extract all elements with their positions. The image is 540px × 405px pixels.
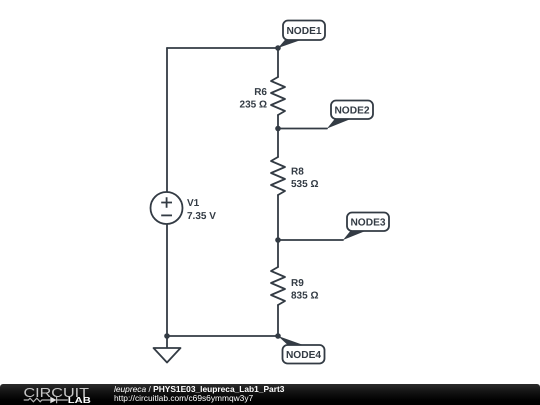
wire NODE3 stub horizontal (278, 239, 343, 241)
ground symbol (154, 336, 181, 363)
flag NODE4 box (283, 345, 325, 364)
flag NODE2 tail (327, 119, 350, 128)
flag NODE3 tail (343, 231, 366, 240)
svg-text:NODE3: NODE3 (350, 217, 385, 228)
svg-text:LAB: LAB (68, 396, 91, 405)
svg-text:R6: R6 (254, 87, 267, 98)
flag NODE4 tail (278, 336, 304, 345)
wire right vertical NODE1 to R6 (277, 48, 279, 77)
wire bottom horizontal (167, 335, 278, 337)
junction dot NODE3 (275, 237, 281, 243)
logo resistor zigzag (24, 398, 51, 402)
svg-text:535 Ω: 535 Ω (291, 179, 318, 190)
wire left vertical upper (166, 48, 168, 192)
junction dot NODE1 (275, 45, 281, 51)
svg-text:835 Ω: 835 Ω (291, 291, 318, 302)
wire left vertical lower (166, 224, 168, 336)
svg-text:R8: R8 (291, 167, 304, 178)
wire NODE3 to R9 (277, 240, 279, 267)
wire NODE2 to R8 (277, 129, 279, 158)
svg-text:NODE4: NODE4 (286, 350, 321, 361)
footer credit text (114, 385, 284, 404)
logo diode (50, 397, 56, 404)
flag NODE3 box (347, 213, 389, 232)
resistor R6 body (271, 77, 285, 115)
svg-text:V1: V1 (187, 198, 200, 209)
wire R8 to NODE3 (277, 195, 279, 240)
footer bar (0, 384, 540, 405)
resistor R8 body (271, 157, 285, 195)
wire top horizontal (167, 47, 278, 49)
wire R6 to NODE2 (277, 115, 279, 129)
flag NODE2 box (331, 101, 373, 120)
svg-text:R9: R9 (291, 278, 304, 289)
svg-text:NODE2: NODE2 (334, 105, 369, 116)
V1 plus sign (161, 197, 172, 208)
resistor R9 body (271, 267, 285, 305)
voltage source V1 circle (151, 192, 183, 224)
svg-text:235 Ω: 235 Ω (240, 100, 267, 111)
junction dot NODE2 (275, 126, 281, 132)
junction dot ground (164, 333, 170, 339)
wire NODE2 stub horizontal (278, 128, 327, 130)
flag NODE1 box (283, 21, 325, 41)
svg-text:NODE1: NODE1 (286, 26, 321, 37)
svg-text:7.35 V: 7.35 V (187, 211, 216, 222)
junction dot NODE4 (275, 333, 281, 339)
V1 minus sign (161, 214, 172, 216)
wire R9 to NODE4 (277, 305, 279, 336)
flag NODE1 tail (278, 39, 303, 48)
